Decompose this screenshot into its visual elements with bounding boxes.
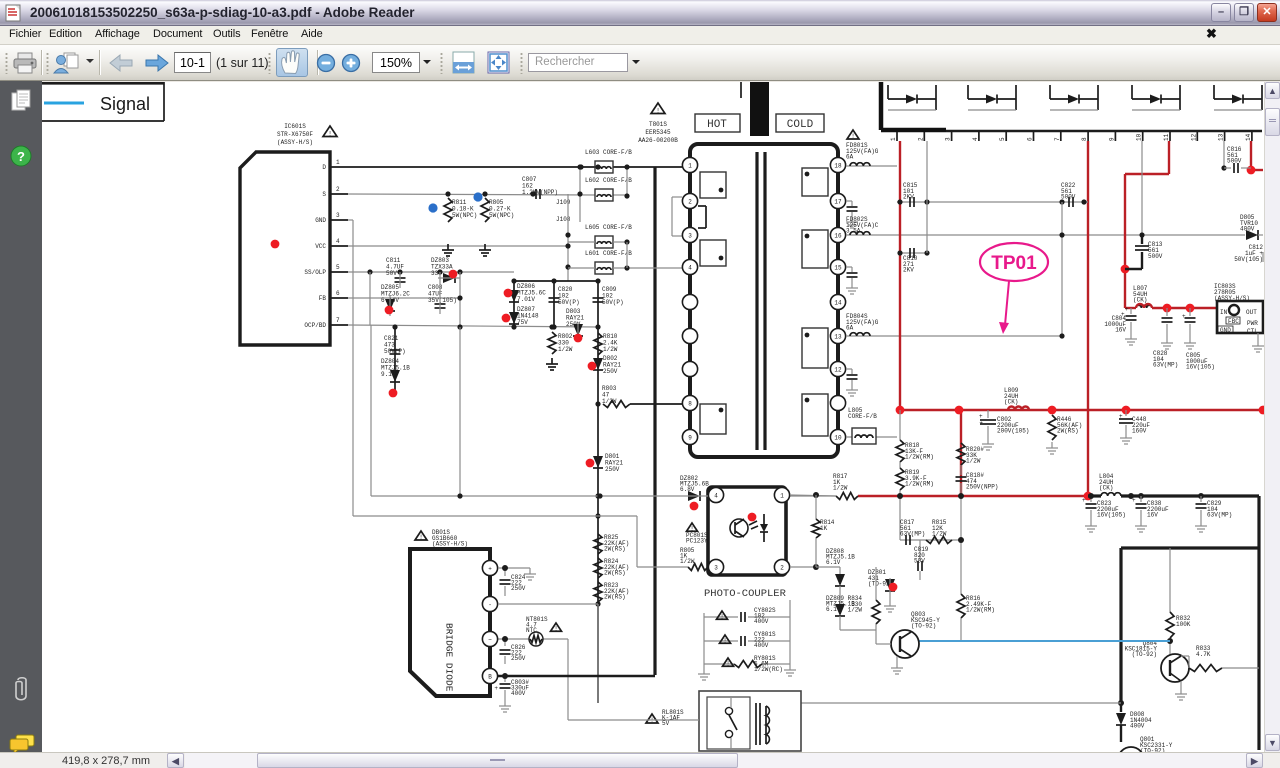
- svg-text:3: 3: [688, 232, 692, 239]
- svg-text:7: 7: [1054, 137, 1061, 141]
- svg-text:PWR: PWR: [1247, 320, 1258, 327]
- svg-text:D: D: [322, 164, 326, 171]
- svg-text:!: !: [328, 130, 332, 137]
- svg-text:1: 1: [688, 162, 692, 169]
- svg-text:PC801SPC123Y: PC801SPC123Y: [686, 532, 708, 544]
- svg-text:GND: GND: [315, 217, 326, 224]
- svg-text:CY802S102400V: CY802S102400V: [754, 607, 776, 625]
- svg-text:C8151012KV: C8151012KV: [903, 182, 918, 201]
- svg-text:16: 16: [834, 232, 842, 239]
- svg-text:+: +: [1082, 497, 1086, 504]
- svg-text:DB01SGS1B660(ASSY-H/S): DB01SGS1B660(ASSY-H/S): [432, 529, 468, 548]
- svg-text:D801RAY21250V: D801RAY21250V: [605, 453, 623, 473]
- svg-text:CTL: CTL: [1247, 328, 1258, 335]
- svg-text:DZ806MTZJ5.6C7.01V: DZ806MTZJ5.6C7.01V: [517, 283, 546, 303]
- svg-text:D802RAY21250V: D802RAY21250V: [603, 355, 621, 375]
- svg-text:C81756163V(MP): C81756163V(MP): [900, 519, 925, 538]
- svg-text:!: !: [419, 534, 423, 541]
- svg-text:4: 4: [972, 137, 979, 141]
- svg-text:!: !: [720, 613, 724, 620]
- svg-text:12: 12: [1190, 133, 1197, 141]
- svg-text:IN: IN: [1220, 309, 1228, 316]
- svg-text:DZ802MTZJ5.6B6.8V: DZ802MTZJ5.6B6.8V: [680, 475, 709, 493]
- svg-text:C80910250V(P): C80910250V(P): [602, 286, 624, 306]
- svg-text:+: +: [488, 565, 492, 572]
- svg-text:12: 12: [834, 366, 842, 373]
- svg-text:?: ?: [17, 149, 25, 164]
- svg-text:C816561500V: C816561500V: [1227, 146, 1242, 165]
- svg-text:C8102712KV: C8102712KV: [903, 255, 918, 274]
- svg-text:R803471/2W: R803471/2W: [602, 385, 617, 405]
- svg-text:C81982050V: C81982050V: [914, 546, 929, 565]
- svg-text:R8171K1/2W: R8171K1/2W: [833, 473, 848, 492]
- svg-text:5: 5: [999, 137, 1006, 141]
- svg-text:R832100K: R832100K: [1176, 615, 1191, 628]
- svg-text:6: 6: [336, 290, 340, 297]
- svg-text:+: +: [1132, 497, 1136, 504]
- svg-text:L603 CORE-F/B: L603 CORE-F/B: [585, 149, 632, 156]
- svg-text:2: 2: [780, 564, 784, 571]
- svg-text:14: 14: [834, 299, 842, 306]
- svg-text:C813561500V: C813561500V: [1148, 241, 1163, 260]
- svg-text:9: 9: [1108, 137, 1115, 141]
- svg-text:DZ8071N414875V: DZ8071N414875V: [517, 306, 539, 326]
- svg-text:OUT: OUT: [1246, 309, 1257, 316]
- svg-text:10: 10: [834, 434, 842, 441]
- svg-text:Q801KSC2331-Y(TO-92): Q801KSC2331-Y(TO-92): [1140, 736, 1173, 752]
- svg-text:1: 1: [336, 159, 340, 166]
- svg-text:B: B: [488, 673, 492, 680]
- svg-text:R8023301/2W: R8023301/2W: [558, 333, 573, 353]
- svg-text:C8382200uF16V: C8382200uF16V: [1147, 500, 1169, 519]
- svg-text:2: 2: [688, 198, 692, 205]
- svg-text:D8081N4004400V: D8081N4004400V: [1130, 711, 1152, 730]
- svg-text:C824222250V: C824222250V: [511, 574, 526, 592]
- svg-text:CY801S222400V: CY801S222400V: [754, 631, 776, 649]
- svg-text:C80847UF35V(105): C80847UF35V(105): [428, 284, 457, 304]
- svg-text:9: 9: [688, 434, 692, 441]
- svg-text:C82010250V(P): C82010250V(P): [558, 286, 580, 306]
- svg-text:3: 3: [714, 564, 718, 571]
- svg-text:-: -: [488, 601, 492, 608]
- svg-text:R820#33K1/2W: R820#33K1/2W: [966, 446, 984, 465]
- svg-text:13: 13: [834, 333, 842, 340]
- svg-text:R44656K(AF)2W(RS): R44656K(AF)2W(RS): [1057, 416, 1082, 435]
- svg-text:C82147350V(P): C82147350V(P): [384, 335, 406, 355]
- svg-text:FD801S125V(FA)G6A: FD801S125V(FA)G6A: [846, 142, 879, 161]
- svg-text:L80424UH(CK): L80424UH(CK): [1099, 473, 1114, 492]
- svg-text:Q803KSC945-Y(TO-92): Q803KSC945-Y(TO-92): [911, 611, 940, 630]
- svg-text:R8050.27-K5W(NPC): R8050.27-K5W(NPC): [489, 199, 514, 219]
- svg-text:C8121uF +50V(105): C8121uF +50V(105): [1234, 244, 1263, 263]
- svg-text:3: 3: [945, 137, 952, 141]
- svg-text:OCP/BD: OCP/BD: [304, 322, 326, 329]
- svg-text:L602 CORE-F/B: L602 CORE-F/B: [585, 177, 632, 184]
- svg-text:!: !: [851, 133, 855, 140]
- svg-text:IC803S278R05(ASSY-H/S): IC803S278R05(ASSY-H/S): [1214, 283, 1250, 302]
- svg-text:!: !: [554, 625, 558, 632]
- svg-text:R8051K1/2W: R8051K1/2W: [680, 547, 695, 565]
- svg-text:+: +: [979, 413, 983, 420]
- svg-text:NT801S4.7NTC: NT801S4.7NTC: [526, 616, 548, 634]
- svg-text:L80924UH(CK): L80924UH(CK): [1004, 387, 1019, 406]
- svg-text:2: 2: [917, 137, 924, 141]
- svg-text:L601 CORE-F/B: L601 CORE-F/B: [585, 250, 632, 257]
- svg-text:+: +: [1119, 413, 1123, 420]
- svg-text:C82810463V(MP): C82810463V(MP): [1153, 350, 1178, 369]
- svg-text:C82910463V(MP): C82910463V(MP): [1207, 500, 1232, 519]
- svg-text:SS/OLP: SS/OLP: [304, 269, 326, 276]
- svg-text:BRIDGE DIODE: BRIDGE DIODE: [444, 623, 455, 692]
- svg-text:10: 10: [1136, 133, 1143, 141]
- svg-text:HOT: HOT: [707, 119, 727, 131]
- svg-text:+: +: [1125, 306, 1129, 313]
- svg-text:C818#474250V(NPP): C818#474250V(NPP): [966, 472, 998, 491]
- svg-text:!: !: [726, 660, 730, 667]
- svg-text:4: 4: [336, 238, 340, 245]
- svg-text:+: +: [494, 685, 498, 692]
- svg-text:VCC: VCC: [315, 243, 326, 250]
- svg-text:R81813K-F1/2W(RM): R81813K-F1/2W(RM): [905, 442, 934, 461]
- svg-text:1: 1: [890, 137, 897, 141]
- svg-text:C8071621.2KV(NPP): C8071621.2KV(NPP): [522, 176, 558, 196]
- svg-text:C448220uF160V: C448220uF160V: [1132, 416, 1150, 435]
- svg-text:R8141K: R8141K: [820, 519, 835, 532]
- svg-text:R8162.49K-F1/2W(RM): R8162.49K-F1/2W(RM): [966, 595, 995, 614]
- svg-text:11: 11: [1163, 133, 1170, 141]
- svg-text:Signal: Signal: [100, 94, 150, 114]
- svg-text:~: ~: [488, 636, 492, 643]
- svg-text:C826222250V: C826222250V: [511, 644, 526, 662]
- svg-text:S: S: [322, 191, 326, 198]
- svg-text:4: 4: [688, 264, 692, 271]
- svg-text:R8102.4K1/2W: R8102.4K1/2W: [603, 333, 618, 353]
- svg-text:7: 7: [336, 317, 340, 324]
- svg-text:PHOTO-COUPLER: PHOTO-COUPLER: [704, 588, 787, 600]
- svg-text:5: 5: [336, 264, 340, 271]
- svg-text:COLD: COLD: [787, 119, 814, 131]
- svg-text:R8334.7K: R8334.7K: [1196, 645, 1211, 658]
- svg-text:C8022200uF200V(105): C8022200uF200V(105): [997, 416, 1029, 435]
- svg-text:C803#330uF400V: C803#330uF400V: [511, 679, 529, 697]
- svg-text:D805TVR10400V: D805TVR10400V: [1240, 214, 1258, 233]
- svg-text:C8232200uF16V(105): C8232200uF16V(105): [1097, 500, 1126, 519]
- svg-text:!: !: [723, 637, 727, 644]
- svg-text:L80754UH(CK): L80754UH(CK): [1133, 285, 1148, 304]
- svg-text:17: 17: [834, 198, 842, 205]
- svg-text:3: 3: [336, 212, 340, 219]
- svg-text:4: 4: [714, 492, 718, 499]
- svg-text:14: 14: [1245, 133, 1252, 141]
- svg-text:18: 18: [834, 162, 842, 169]
- svg-text:RL801SK-1AF5V: RL801SK-1AF5V: [662, 709, 684, 727]
- svg-text:DZ805MTZJ6.2C6.44V: DZ805MTZJ6.2C6.44V: [381, 284, 410, 304]
- svg-text:R82322K(AF)2W(RS): R82322K(AF)2W(RS): [604, 582, 629, 601]
- svg-text:TP01: TP01: [991, 253, 1037, 274]
- svg-text:1: 1: [780, 492, 784, 499]
- svg-text:!: !: [656, 107, 660, 114]
- svg-text:C822561500V: C822561500V: [1061, 182, 1076, 201]
- svg-text:DZ808MTZJ5.1B6.1V: DZ808MTZJ5.1B6.1V: [826, 548, 855, 566]
- svg-text:Q804KSC1815-Y(TO-92): Q804KSC1815-Y(TO-92): [1125, 640, 1158, 658]
- svg-text:R82422K(AF)2W(RS): R82422K(AF)2W(RS): [604, 558, 629, 577]
- svg-text:C8051000uF16V(105): C8051000uF16V(105): [1186, 352, 1215, 371]
- svg-text:R8193.9K-F1/2W(RM): R8193.9K-F1/2W(RM): [905, 469, 934, 488]
- svg-text:2: 2: [336, 186, 340, 193]
- svg-text:FD804S125V(FA)G6A: FD804S125V(FA)G6A: [846, 313, 879, 332]
- svg-text:15: 15: [834, 264, 842, 271]
- svg-text:+: +: [979, 420, 983, 427]
- svg-text:R81512K1/2W: R81512K1/2W: [932, 519, 947, 538]
- svg-text:T801SEER5345AA26-00200B: T801SEER5345AA26-00200B: [638, 121, 678, 144]
- svg-text:IC601SSTR-X6750F(ASSY-H/S): IC601SSTR-X6750F(ASSY-H/S): [277, 123, 313, 146]
- svg-text:+: +: [1182, 313, 1186, 320]
- svg-text:8: 8: [1081, 137, 1088, 141]
- svg-text:R8110.18-K5W(NPC): R8110.18-K5W(NPC): [452, 199, 477, 219]
- svg-text:6: 6: [1027, 137, 1034, 141]
- svg-text:L805CORE-F/B: L805CORE-F/B: [848, 407, 877, 420]
- svg-text:13: 13: [1218, 133, 1225, 141]
- svg-text:8: 8: [688, 400, 692, 407]
- svg-text:FB: FB: [319, 295, 327, 302]
- svg-text:R82522K(AF)2W(RS): R82522K(AF)2W(RS): [604, 534, 629, 553]
- svg-text:L605 CORE-F/B: L605 CORE-F/B: [585, 224, 632, 231]
